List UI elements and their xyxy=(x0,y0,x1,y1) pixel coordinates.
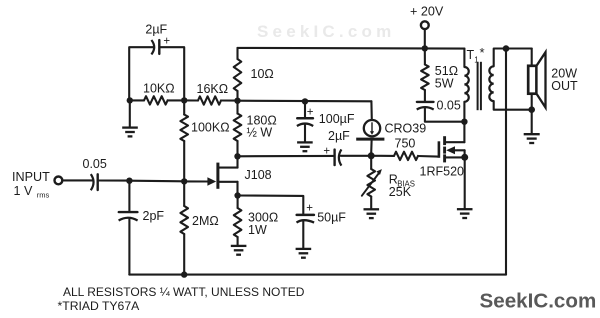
wire xyxy=(494,101,532,110)
svg-text:10KΩ: 10KΩ xyxy=(143,82,175,96)
wire xyxy=(304,101,306,117)
svg-text:100µF: 100µF xyxy=(319,112,355,126)
wire xyxy=(341,155,372,157)
ground xyxy=(364,209,380,218)
wire xyxy=(370,156,372,169)
svg-text:*TRIAD TY67A: *TRIAD TY67A xyxy=(58,299,141,313)
transformer T1 secondary winding xyxy=(489,66,493,101)
wire xyxy=(531,49,533,66)
capacitor C3 100uF xyxy=(297,107,355,127)
svg-text:rms: rms xyxy=(37,191,50,200)
potentiometer RBIAS 25K xyxy=(362,169,415,199)
wire xyxy=(463,122,465,143)
svg-text:2pF: 2pF xyxy=(143,209,165,223)
svg-text:0.05: 0.05 xyxy=(437,99,461,113)
wire xyxy=(464,157,466,208)
svg-text:1RF520: 1RF520 xyxy=(420,165,465,179)
svg-text:2MΩ: 2MΩ xyxy=(192,214,219,228)
wire xyxy=(494,49,532,67)
wire xyxy=(531,110,533,134)
svg-text:INPUT: INPUT xyxy=(12,170,50,184)
transformer T1 core xyxy=(478,62,481,110)
node B (divider node) xyxy=(181,178,187,184)
svg-text:16KΩ: 16KΩ xyxy=(197,82,229,96)
svg-text:50µF: 50µF xyxy=(317,211,346,225)
node F xyxy=(422,45,428,51)
wire xyxy=(302,221,304,248)
svg-text:25K: 25K xyxy=(389,185,412,199)
resistor R3 100K xyxy=(180,100,229,181)
wire xyxy=(129,180,184,183)
wire xyxy=(463,102,465,122)
node D xyxy=(181,97,187,103)
wire xyxy=(424,29,426,48)
wire xyxy=(463,49,465,67)
svg-text:CRO39: CRO39 xyxy=(385,122,427,136)
resistor R5 750 xyxy=(371,137,437,161)
ground xyxy=(524,134,540,143)
resistor R6 180 xyxy=(234,101,277,157)
node I (J108 drain) xyxy=(234,153,240,159)
wire xyxy=(129,47,153,100)
wire xyxy=(531,94,533,110)
wire xyxy=(505,49,507,275)
node L xyxy=(461,119,467,125)
wire xyxy=(160,47,184,100)
node K xyxy=(181,271,187,277)
wire xyxy=(129,100,131,127)
node C xyxy=(127,97,133,103)
wire xyxy=(238,196,304,214)
wire xyxy=(129,274,506,276)
wire xyxy=(238,47,465,50)
note triad xyxy=(58,299,141,313)
svg-text:SeekIC.com: SeekIC.com xyxy=(257,22,395,41)
svg-text:0.05: 0.05 xyxy=(83,157,107,171)
svg-text:SeekIC.com: SeekIC.com xyxy=(480,290,597,313)
svg-text:1W: 1W xyxy=(248,223,267,237)
wire xyxy=(370,141,372,153)
node M xyxy=(503,45,510,52)
transistor Q1 J108 xyxy=(207,156,271,195)
capacitor C6 0.05 xyxy=(417,99,461,113)
node J (J108 source) xyxy=(234,192,240,198)
transformer T1 primary winding xyxy=(464,67,468,102)
svg-text:5W: 5W xyxy=(435,77,454,91)
label T1 xyxy=(467,45,485,65)
wire xyxy=(425,108,465,122)
diode D1 CRO39 xyxy=(356,120,426,139)
capacitor C1 2uF xyxy=(145,23,170,55)
wire xyxy=(370,101,372,120)
resistor R8 2M xyxy=(180,181,218,274)
speaker LS1 xyxy=(528,52,578,107)
capacitor C4 2uF xyxy=(323,129,350,166)
svg-text:½ W: ½ W xyxy=(247,126,273,140)
wire xyxy=(238,155,335,158)
node G xyxy=(302,98,308,104)
logo SeekIC.com xyxy=(480,290,597,313)
decor xyxy=(257,22,395,41)
ground xyxy=(231,246,247,255)
resistor R2 16K xyxy=(184,82,237,105)
ground xyxy=(297,142,313,151)
capacitor C5 50uF xyxy=(297,203,347,225)
node IN terminal xyxy=(55,177,63,185)
svg-text:1 V: 1 V xyxy=(14,184,34,198)
wire xyxy=(184,180,207,182)
svg-text:+: + xyxy=(307,107,314,119)
svg-text:750: 750 xyxy=(395,137,416,151)
node A (input node) xyxy=(126,178,132,184)
transistor Q2 1RF520 xyxy=(420,136,465,178)
svg-text:2µF: 2µF xyxy=(328,129,350,143)
wire xyxy=(238,100,372,103)
svg-text:J108: J108 xyxy=(245,168,272,182)
svg-text:T: T xyxy=(467,48,475,62)
wire xyxy=(424,90,426,101)
svg-text:+: + xyxy=(323,146,330,158)
note resistors xyxy=(63,285,305,299)
ground xyxy=(457,209,473,218)
wire xyxy=(370,197,372,209)
node H xyxy=(368,152,375,159)
svg-text:+: + xyxy=(163,36,170,48)
capacitor C-IN 0.05 xyxy=(83,157,107,190)
resistor R4 10 xyxy=(234,48,274,101)
resistor R9 51 xyxy=(421,48,458,90)
node +20V terminal xyxy=(421,21,429,29)
wire xyxy=(128,181,130,211)
resistor R1 10K xyxy=(130,82,184,105)
wire xyxy=(63,179,93,181)
resistor R7 300 xyxy=(234,196,278,246)
svg-text:100KΩ: 100KΩ xyxy=(191,121,230,135)
wire xyxy=(304,125,306,142)
svg-text:+ 20V: + 20V xyxy=(410,4,444,18)
svg-text:OUT: OUT xyxy=(551,79,578,93)
svg-text:ALL RESISTORS ¼ WATT, UNLESS N: ALL RESISTORS ¼ WATT, UNLESS NOTED xyxy=(63,285,305,299)
svg-text:2µF: 2µF xyxy=(145,23,167,37)
node E xyxy=(234,98,240,104)
node N xyxy=(528,106,535,113)
svg-text:10Ω: 10Ω xyxy=(251,67,274,81)
wire xyxy=(98,179,127,181)
ground xyxy=(296,249,312,258)
wire xyxy=(128,219,130,274)
label +20V xyxy=(410,4,444,18)
ground xyxy=(122,128,138,137)
node O (Q2 source) xyxy=(461,154,468,161)
capacitor C2 2pF xyxy=(119,209,165,223)
label INPUT xyxy=(12,170,50,200)
svg-text:+: + xyxy=(306,203,313,215)
svg-text:*: * xyxy=(480,45,485,60)
